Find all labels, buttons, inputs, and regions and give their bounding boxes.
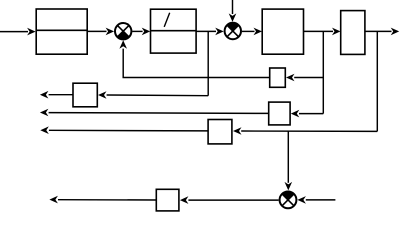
block G1 (fraction box) bbox=[36, 9, 87, 54]
block H2 bbox=[270, 68, 286, 87]
wire S3 to right side of block H5 bbox=[180, 196, 279, 204]
wire G3 to block G4 bbox=[304, 28, 341, 36]
wire H5 output arrow to the left bbox=[49, 196, 156, 204]
wire node B into right side of block H3 bbox=[291, 110, 324, 118]
wire G2 to summer S2 bbox=[196, 28, 224, 36]
wire G4 to output arrow bbox=[365, 28, 399, 36]
wire H2 feedback left and up into bottom of S1 bbox=[119, 40, 269, 77]
wire G1 to summer S1 bbox=[87, 28, 114, 36]
block G4 (tall narrow box) bbox=[341, 11, 365, 55]
wire S1 to block G2 bbox=[132, 28, 150, 36]
block H5 bbox=[156, 189, 179, 211]
wire top input arrow into S2 bbox=[229, 0, 237, 22]
block H3 bbox=[269, 102, 290, 125]
wire H3 output arrow to the left bbox=[40, 109, 269, 117]
wire node B into right side of block H2 bbox=[286, 74, 323, 82]
wire tap node B down from G3 output bbox=[322, 31, 324, 113]
wire node C into right side of block H4 bbox=[233, 127, 377, 135]
block H1 bbox=[73, 83, 97, 107]
wire S2 to block G3 bbox=[242, 28, 262, 36]
wire right-hand input arrow into S3 bbox=[297, 196, 335, 204]
summing junction S2 (circle with X, top wedge filled) bbox=[225, 23, 241, 39]
block H4 bbox=[208, 120, 232, 144]
summing junction S3 (circle with X, top wedge filled) bbox=[280, 191, 297, 208]
block G2 (fraction box with slash) bbox=[151, 9, 197, 53]
wire tap node A down from G2 output bbox=[207, 31, 209, 95]
wire node D down into top of summer S3 bbox=[285, 131, 293, 190]
wire node A into right side of block H1 bbox=[98, 91, 208, 99]
wire tap node C down from G4 output bbox=[376, 31, 378, 131]
wire input arrow into block G1 bbox=[0, 28, 36, 36]
wire H1 output arrow to the left bbox=[40, 91, 73, 99]
summing junction S1 (circle with X, bottom wedge filled) bbox=[115, 23, 131, 39]
wire H4 output arrow to the left bbox=[40, 126, 208, 134]
block G3 bbox=[262, 9, 303, 54]
